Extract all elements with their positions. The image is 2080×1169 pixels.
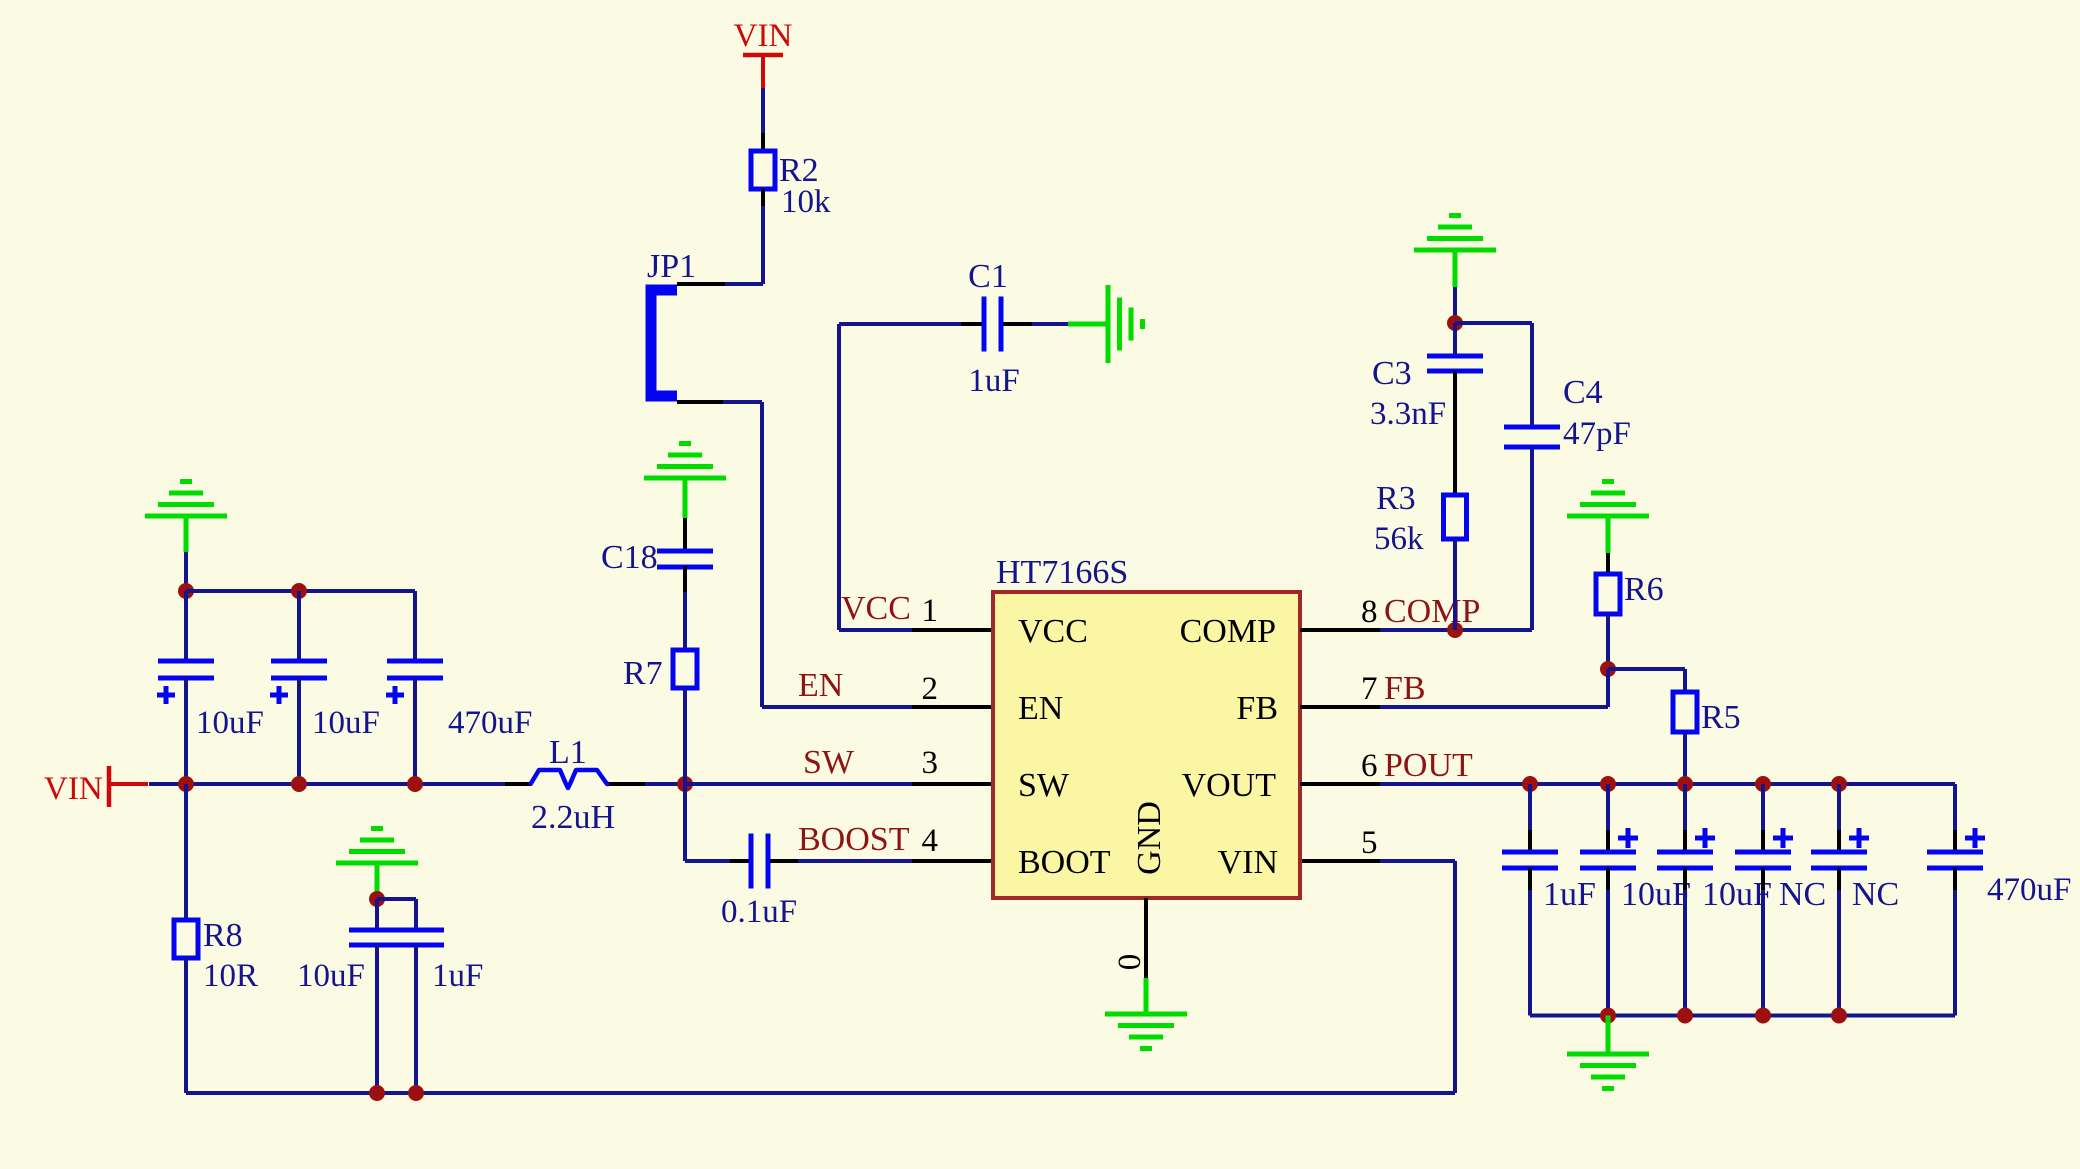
svg-text:0.1uF: 0.1uF [721, 894, 797, 930]
pin GND 0 [1112, 898, 1148, 978]
capacitor 10uF (input 1) [157, 591, 264, 784]
wire VCC vertical [837, 324, 841, 630]
wire R3 to COMP [1453, 539, 1457, 630]
ground [644, 444, 726, 519]
wire JP1 to EN [677, 402, 912, 707]
svg-text:SW: SW [803, 744, 855, 781]
resistor R3 [1374, 480, 1467, 557]
wire 470uF top drop [413, 591, 417, 661]
wire POUT rail [1380, 782, 1955, 786]
net label BOOST [798, 821, 910, 858]
capacitor 470uF (out) [1927, 784, 2071, 1016]
capacitor NC (out1) [1735, 784, 1826, 1016]
svg-text:C4: C4 [1563, 374, 1603, 411]
svg-text:BOOT: BOOT [1018, 844, 1111, 881]
resistor R2 [751, 151, 831, 220]
wire C4 top [1455, 323, 1532, 427]
svg-text:COMP: COMP [1384, 593, 1480, 630]
svg-text:7: 7 [1361, 671, 1378, 707]
svg-text:VCC: VCC [841, 590, 911, 627]
svg-text:JP1: JP1 [647, 248, 696, 285]
wire bottom rail [186, 1085, 1455, 1101]
svg-text:R7: R7 [623, 655, 663, 692]
svg-text:2: 2 [922, 671, 939, 707]
svg-text:1uF: 1uF [432, 958, 483, 994]
svg-text:L1: L1 [549, 734, 587, 771]
wire VCC horizontal [839, 628, 912, 632]
pin SW 3 [912, 782, 993, 786]
svg-text:VIN: VIN [44, 771, 103, 807]
pin VIN 5 [1300, 825, 1380, 861]
svg-text:0: 0 [1112, 954, 1148, 971]
wire L1 to SW node [609, 782, 685, 786]
capacitor 10uF (out2) [1657, 784, 1772, 1016]
node top-left rail junction [178, 583, 194, 599]
wire VIN to R2 [761, 88, 765, 151]
capacitor 470uF (input) [386, 661, 532, 784]
pin number 4 [922, 823, 939, 859]
wire R5 to POUT [1683, 732, 1687, 784]
svg-text:10uF: 10uF [312, 705, 380, 741]
svg-text:VIN: VIN [734, 18, 793, 54]
node POUT junctions [1522, 776, 1847, 792]
svg-text:COMP: COMP [1180, 613, 1276, 650]
net label EN [798, 667, 843, 704]
wire FB [1380, 669, 1608, 707]
svg-text:EN: EN [798, 667, 843, 704]
inductor L1 [505, 734, 615, 836]
pin name BOOT [1018, 844, 1111, 881]
svg-text:6: 6 [1361, 748, 1378, 784]
svg-text:10uF: 10uF [196, 705, 264, 741]
pin COMP 8 [1300, 628, 1380, 632]
capacitor 10uF (input 2) [270, 591, 380, 784]
wire SW to BOOST [685, 784, 732, 861]
capacitor 1uF (bypass) [388, 930, 483, 1093]
svg-text:1uF: 1uF [968, 363, 1019, 399]
wire BOOST [798, 859, 912, 863]
svg-text:GND: GND [1131, 801, 1168, 875]
svg-text:VCC: VCC [1018, 613, 1088, 650]
svg-text:C3: C3 [1372, 355, 1412, 392]
wire cap branch [377, 899, 416, 930]
wire [184, 552, 188, 591]
ground (IC) [1105, 978, 1187, 1049]
pin number 1 [922, 593, 939, 629]
ground (output) [1567, 1016, 1649, 1089]
wire R7 to SW [683, 688, 687, 784]
wire output bottom rail [1530, 1008, 1955, 1024]
svg-text:1: 1 [922, 593, 939, 629]
capacitor C1 [839, 258, 1068, 399]
pin name FB [1236, 690, 1278, 727]
capacitor 10uF (out1) [1580, 784, 1691, 1016]
pin name EN [1018, 690, 1063, 727]
node C3 top junction [1447, 315, 1463, 331]
svg-text:4: 4 [922, 823, 939, 859]
pin name GND [1131, 801, 1168, 875]
svg-text:10uF: 10uF [297, 958, 365, 994]
pin name VCC [1018, 613, 1088, 650]
pin FB 7 [1300, 705, 1380, 709]
svg-text:1uF: 1uF [1543, 876, 1596, 913]
capacitor C18 [601, 518, 713, 650]
svg-text:HT7166S: HT7166S [996, 554, 1128, 591]
net label SW [803, 744, 855, 781]
resistor R7 [623, 650, 697, 692]
svg-text:R6: R6 [1624, 571, 1664, 608]
svg-text:470uF: 470uF [1987, 872, 2071, 908]
ground (right-facing) [1068, 285, 1143, 363]
power port VIN (left) [44, 766, 148, 807]
wire R6 bottom [1606, 614, 1610, 669]
op-amp U1 HT7166S body [993, 554, 1300, 898]
pin name COMP [1180, 613, 1276, 650]
pin name VOUT [1182, 767, 1277, 804]
svg-text:R8: R8 [203, 917, 243, 954]
wire R2 to JP1 [677, 189, 763, 284]
wire [1453, 287, 1457, 323]
svg-text:VOUT: VOUT [1182, 767, 1277, 804]
svg-text:FB: FB [1236, 690, 1278, 727]
capacitor C2 0.1uF [721, 834, 800, 931]
jumper JP1 [647, 248, 696, 396]
svg-text:470uF: 470uF [448, 705, 532, 741]
svg-text:5: 5 [1361, 825, 1378, 861]
wire VIN pin5 drop [1380, 861, 1455, 1093]
net label VCC [841, 590, 911, 627]
resistor R8 [174, 917, 258, 994]
net label COMP [1361, 593, 1480, 630]
svg-text:10R: 10R [203, 958, 258, 994]
wire R8 top [184, 784, 188, 920]
capacitor 10uF (bypass) [297, 899, 405, 1093]
svg-text:10k: 10k [781, 184, 831, 220]
node COMP junction [1447, 622, 1463, 638]
svg-text:NC: NC [1852, 876, 1899, 913]
svg-text:3: 3 [922, 745, 939, 781]
svg-text:C18: C18 [601, 539, 658, 576]
capacitor C3 [1370, 323, 1483, 495]
wire VIN rail [149, 776, 513, 792]
pin name SW [1018, 767, 1070, 804]
node FB junction [1600, 661, 1616, 677]
ground [1414, 216, 1496, 288]
pin BOOT 4 [912, 859, 993, 863]
pin EN 2 [912, 705, 993, 709]
capacitor NC (out2) [1811, 784, 1899, 1016]
svg-text:10uF: 10uF [1621, 876, 1691, 913]
ground [145, 482, 227, 553]
svg-text:2.2uH: 2.2uH [531, 799, 615, 836]
wire SW rail [685, 782, 912, 786]
svg-text:R5: R5 [1701, 699, 1741, 736]
capacitor C4 [1504, 374, 1631, 630]
svg-text:C1: C1 [968, 258, 1008, 295]
svg-text:FB: FB [1384, 670, 1426, 707]
svg-text:8: 8 [1361, 594, 1378, 630]
wire COMP [1380, 628, 1532, 632]
svg-text:SW: SW [1018, 767, 1070, 804]
wire R8 bottom [184, 958, 188, 1093]
ground [336, 829, 418, 900]
svg-text:NC: NC [1779, 876, 1826, 913]
pin number 2 [922, 671, 939, 707]
pin VCC 1 [912, 628, 993, 632]
ground [1567, 482, 1649, 554]
svg-text:3.3nF: 3.3nF [1370, 396, 1446, 432]
svg-text:EN: EN [1018, 690, 1063, 727]
net label POUT [1361, 747, 1473, 784]
pin name VIN [1218, 844, 1278, 881]
svg-text:R3: R3 [1376, 480, 1416, 517]
node SW junction [677, 776, 693, 792]
pin VOUT 6 [1300, 782, 1380, 786]
svg-text:VIN: VIN [1218, 844, 1278, 881]
net label FB [1361, 670, 1426, 707]
resistor R5 [1673, 692, 1741, 736]
pin number 3 [922, 745, 939, 781]
svg-text:47pF: 47pF [1563, 416, 1631, 452]
svg-text:56k: 56k [1374, 521, 1424, 557]
power port VIN (top) [734, 18, 793, 90]
svg-text:POUT: POUT [1384, 747, 1473, 784]
svg-text:BOOST: BOOST [798, 821, 910, 858]
wire top-left rail [186, 583, 415, 599]
wire FB to R5 [1608, 669, 1685, 692]
node bottom caps top junction [369, 891, 385, 907]
resistor R6 [1596, 553, 1664, 614]
capacitor 1uF (out) [1502, 784, 1596, 1016]
